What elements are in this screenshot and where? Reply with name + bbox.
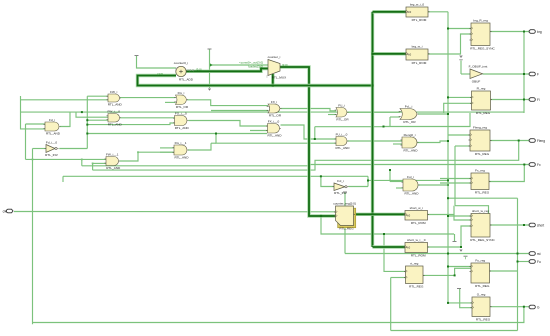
net terminator arrow arr1 [208, 89, 211, 91]
wire net_L167v [81, 159, 83, 165]
wire net_inv_out [59, 148, 87, 150]
wire net_brg_fb [523, 32, 525, 114]
wire net_obuf_feed [460, 61, 462, 75]
wire net_short_q [490, 224, 529, 226]
AND gate FW_i (RTL_AND) [107, 90, 123, 107]
svg-text:FU_i: FU_i [338, 103, 345, 107]
svg-text:RTL_AND: RTL_AND [106, 166, 121, 170]
wire net_fw0_in2b [87, 119, 108, 121]
wire net_rt_out [423, 274, 455, 276]
svg-text:rt_reg: rt_reg [410, 262, 418, 266]
output port F [529, 72, 539, 76]
constant stub G_reg [457, 288, 461, 290]
junction j22 [454, 274, 456, 276]
svg-text:4:0: 4:0 [407, 10, 412, 14]
junction j28 [460, 246, 462, 248]
constant gnd symbol near brg_R_reg [459, 56, 463, 59]
wire net_gnd_top [137, 56, 177, 68]
RTL_REG block Fleng_reg [469, 126, 492, 156]
wire net_inv_in [33, 148, 47, 150]
junction j15 [383, 233, 385, 235]
junction j1 [371, 84, 373, 86]
junction j16 [523, 31, 525, 33]
svg-text:Fl_reg: Fl_reg [477, 87, 486, 91]
wire net_L176v [62, 176, 64, 182]
svg-text:RTL_ROM: RTL_ROM [411, 221, 426, 225]
wire net_fxreg_d1 [440, 178, 471, 180]
svg-text:4:0: 4:0 [406, 246, 411, 250]
wire net_obuf_out [483, 73, 530, 75]
svg-text:RTL_REG: RTL_REG [409, 285, 424, 289]
svg-text:RTL_REG_SYNC: RTL_REG_SYNC [470, 47, 495, 51]
AND gate FG_i__1 (RTL_AND) [173, 141, 190, 160]
svg-text:Fu_reg: Fu_reg [475, 259, 485, 263]
adder counter0_i (RTL_ADD) [174, 61, 195, 81]
RTL_REG block Fx_reg [470, 169, 491, 195]
constant stub short_w_reg R [453, 241, 457, 243]
junction j4 [272, 84, 274, 86]
junction j18 [523, 99, 525, 101]
svg-text:brg: brg [537, 30, 542, 34]
svg-text:RTL_AND: RTL_AND [108, 103, 123, 107]
AND gate FX_i__0 (RTL_AND) [266, 119, 282, 137]
wire-start arrow const0 [210, 63, 213, 66]
junction j26b [447, 113, 449, 115]
svg-text:4:0: 4:0 [406, 213, 411, 217]
wire net_fg1_in2 [160, 151, 174, 153]
wire net_fg_in2 [165, 101, 176, 103]
wire net_L176 [63, 175, 368, 177]
bus bus_muxout [280, 67, 336, 216]
wire net_g_c [448, 302, 472, 304]
svg-text:FvL_i: FvL_i [405, 104, 413, 108]
bus bus_rom0 [373, 10, 407, 13]
junction jfvl [320, 175, 322, 177]
svg-text:FG_i__1: FG_i__1 [175, 141, 187, 145]
wire net_ful_in1v [389, 170, 391, 182]
wire net_fleng_dv [454, 146, 456, 206]
wire net_fl_q [491, 99, 530, 101]
wire net_fw0_in1 [76, 112, 108, 117]
wire net_fu_port [518, 261, 530, 263]
junction j20 [517, 261, 519, 263]
wire net_y180v [367, 176, 369, 186]
wire net_fvl_in [321, 176, 334, 186]
svg-text:RTL_AND: RTL_AND [175, 126, 190, 130]
wire net_fx0_in2 [250, 130, 268, 132]
junction j17 [523, 73, 525, 75]
wire net_ful_out [419, 184, 449, 186]
wire net_fw1_in2v [92, 163, 94, 170]
wire net_fd_in1 [26, 123, 46, 125]
svg-text:G_reg: G_reg [477, 293, 486, 297]
svg-text:RTL_ROM: RTL_ROM [412, 61, 427, 65]
wire net_ful_in1 [390, 181, 403, 183]
wire net_fg0_in2_long [87, 123, 174, 125]
wire net_fleng_d [455, 145, 470, 147]
junction j7b [86, 124, 88, 126]
output port Fl [529, 98, 540, 102]
wire net_fw_in_bot [21, 99, 109, 101]
input port clk [3, 209, 13, 213]
bus bus_rom1 [373, 52, 407, 55]
svg-text:FW_i__0: FW_i__0 [108, 109, 121, 113]
junction j27 [447, 140, 449, 142]
svg-text:FX_i__0: FX_i__0 [268, 119, 280, 123]
svg-text:RTL_ROM: RTL_ROM [412, 18, 427, 22]
wire net_fw0_out [120, 117, 175, 119]
svg-text:RTL_OR: RTL_OR [403, 120, 416, 124]
wire net_g_d [460, 289, 472, 308]
junction jv1 [447, 28, 449, 30]
junction j26 [447, 96, 449, 98]
junction j19 [523, 224, 525, 226]
svg-text:Fvl_i: Fvl_i [337, 179, 344, 183]
svg-text:F_OBUF_inst: F_OBUF_inst [469, 64, 488, 68]
RTL_REG block Fl_reg [470, 87, 492, 115]
svg-text:RTL_REG: RTL_REG [476, 318, 491, 322]
AND gate FW_i__1 (RTL_AND) [105, 152, 122, 170]
junction j7c [86, 133, 88, 135]
svg-text:short_w_i: short_w_i [410, 206, 424, 210]
RTL_REG_SYNC block brg_R_reg [470, 19, 496, 51]
RTL_ROM block short_w_i [404, 206, 430, 225]
svg-text:short_w_i__0: short_w_i__0 [407, 238, 426, 242]
mux counter_i (RTL_MUX) [266, 55, 286, 80]
svg-text:RTL_REG_SYNC: RTL_REG_SYNC [470, 238, 495, 242]
wire net_shortrom_out [428, 215, 472, 221]
output port short [529, 223, 544, 227]
svg-text:Fx: Fx [537, 163, 541, 167]
wire net_bottom_long [33, 307, 524, 323]
wire net_fleng_c [448, 134, 470, 136]
output port rst [529, 252, 540, 256]
junction j13 [447, 179, 449, 181]
junction j5 [320, 215, 322, 217]
svg-text:RTL_REG: RTL_REG [475, 284, 490, 288]
wire net_g_q [491, 306, 530, 308]
svg-text:S: S [266, 75, 268, 79]
bus bus_muxsel [271, 74, 274, 86]
junction jfleng [518, 140, 520, 142]
svg-text:FG_i__0: FG_i__0 [175, 111, 187, 115]
svg-text:RTL_AND: RTL_AND [174, 156, 189, 160]
wire net_v448 [447, 12, 449, 303]
RTL_REG block counter_reg[3:0] [333, 202, 356, 231]
AND gate FW_i__0 (RTL_AND) [107, 109, 123, 126]
wire net_fb_top [21, 111, 525, 113]
wire net_fg1_in [160, 147, 174, 149]
bus bus_fbB [138, 76, 373, 86]
wire net_y234 [321, 216, 454, 234]
wire net_fleng0_in2 [393, 143, 402, 145]
junction j21 [523, 306, 525, 308]
svg-text:Fleng0_i: Fleng0_i [404, 133, 416, 137]
svg-text:Fu: Fu [537, 260, 541, 264]
wire net_fu_out [348, 111, 401, 113]
wire net_fw1_out [120, 152, 175, 161]
svg-text:Fleng: Fleng [537, 139, 545, 143]
svg-text:brg_w_i_0: brg_w_i_0 [410, 3, 425, 7]
svg-text:[3:0]: [3:0] [282, 63, 288, 67]
svg-text:Fleng_reg: Fleng_reg [473, 126, 487, 130]
wire net_brg_c [448, 28, 471, 30]
constant stub Fu_reg CE [464, 256, 468, 259]
wire net_fw_out [120, 97, 176, 99]
wire net_fg_out [187, 100, 268, 106]
wire net_fl_c [448, 96, 472, 98]
inverter Fd_i__0 (RTL_INV) [45, 140, 59, 157]
svg-text:RTL_AND: RTL_AND [335, 146, 350, 150]
OR gate FU_i (RTL_OR) [335, 103, 350, 121]
svg-text:RTL_AND: RTL_AND [108, 123, 123, 127]
svg-text:loadeo[3:0]: loadeo[3:0] [248, 64, 263, 68]
wire net_y133 [87, 133, 267, 135]
junction j14 [447, 253, 449, 255]
junction j11 [314, 138, 316, 140]
wire net_clk [14, 211, 336, 213]
wire net_fg1_out [188, 143, 211, 150]
wire net_fu_q [490, 270, 518, 272]
wire net_fb_left_v [21, 96, 46, 129]
svg-text:RTL_INV: RTL_INV [45, 153, 59, 157]
svg-text:FU_i__0: FU_i__0 [336, 132, 348, 136]
wire net_fw_in_top [87, 95, 108, 97]
AND gate FG_i__0 (RTL_AND) [173, 111, 190, 130]
svg-text:brg_w_i: brg_w_i [412, 45, 423, 49]
junction j6 [81, 111, 83, 113]
wire net_rt_c [384, 234, 406, 271]
svg-text:RTL_REG: RTL_REG [339, 227, 354, 231]
bus bus_counterq_v [371, 12, 374, 247]
wire net_y234v [454, 234, 456, 241]
svg-text:Fl: Fl [537, 98, 540, 102]
AND gate Fd_i (RTL_AND) [44, 118, 61, 136]
wire net_fxreg_q [489, 165, 524, 182]
junction j8 [32, 159, 34, 161]
svg-text:Ful_i: Ful_i [407, 175, 414, 179]
svg-text:FX_i: FX_i [271, 100, 278, 104]
junction j24 [447, 266, 449, 268]
wire net_shortrom0_out [428, 226, 472, 247]
RTL_ROM block brg_w_i [405, 45, 430, 65]
wire net_rt_d [391, 277, 406, 279]
RTL_REG_SYNC block short_w_reg [470, 209, 496, 242]
svg-text:counter_reg[3:0]: counter_reg[3:0] [333, 202, 356, 206]
svg-text:OBUF: OBUF [472, 80, 481, 84]
wire net_fu_in2 [328, 114, 336, 116]
AND gate Ful_i (RTL_AND) [402, 175, 420, 196]
wire net_or4_out [418, 113, 448, 115]
OBUF F_OBUF_inst [469, 64, 488, 83]
wire net_y158 [26, 158, 107, 160]
svg-text:Fx_reg: Fx_reg [475, 169, 485, 173]
wire net_fx_in2 [211, 110, 268, 112]
svg-text:4:0: 4:0 [407, 53, 412, 57]
output port Fleng [529, 139, 545, 143]
wire net_fg1_h [211, 142, 216, 144]
output port G [529, 305, 540, 309]
constant stub const0_mux [208, 48, 212, 50]
wire net_fl_d [444, 103, 472, 113]
constant stub gnd1 [135, 55, 139, 57]
wire net_fg1_branch [216, 134, 336, 144]
junction j9b [137, 151, 139, 153]
wire net_y126 [384, 113, 471, 127]
svg-text:short: short [537, 223, 544, 227]
svg-text:RTL_ADD: RTL_ADD [179, 78, 194, 82]
svg-text:[3:0]: [3:0] [196, 68, 202, 72]
svg-text:RTL_AND: RTL_AND [267, 134, 282, 138]
svg-text:RTL_AND: RTL_AND [404, 192, 419, 196]
RTL_REG block rt_reg [404, 262, 425, 289]
junction j2 [371, 53, 373, 55]
svg-text:O[3:0]: O[3:0] [187, 68, 194, 72]
wire net_const_mux_h [210, 64, 269, 66]
wire net_fx0_up [314, 127, 316, 139]
junction j20c [447, 197, 449, 199]
junction jful [447, 184, 449, 186]
wire net_y180 [368, 179, 448, 181]
wire net_brg_q [491, 31, 530, 33]
svg-text:FG_i: FG_i [178, 91, 185, 95]
svg-text:[3:0]: [3:0] [158, 72, 164, 76]
wire net_short_ce [455, 206, 489, 214]
wire net_rt_out2 [455, 268, 471, 275]
output port Fx [529, 163, 541, 167]
svg-text:brg_R_reg: brg_R_reg [473, 19, 488, 23]
wire net_short_c [448, 215, 471, 217]
wire net_inv_in_v [32, 149, 34, 160]
svg-text:RTL_ROM: RTL_ROM [411, 254, 426, 258]
wire net_short_cev [453, 206, 455, 215]
wire net_fvl_out [349, 186, 369, 188]
RTL_ROM block short_w_i__0 [404, 238, 430, 257]
svg-text:RTL_OR: RTL_OR [269, 114, 282, 118]
wire net_fx0_out [281, 125, 337, 139]
wire net_left_long_v [32, 159, 34, 324]
junction j9c [92, 163, 94, 165]
OR gate FvL_i (RTL_OR) [399, 104, 419, 124]
svg-text:FW_i: FW_i [110, 90, 118, 94]
wire net_y198 [448, 197, 518, 199]
junction j10 [215, 133, 217, 135]
junction j7 [86, 119, 88, 121]
wire net_const_mux [209, 50, 211, 89]
junction j12 [367, 180, 369, 182]
junction jfx [523, 164, 525, 166]
junction j20b [517, 253, 519, 255]
svg-text:F: F [537, 72, 539, 76]
wire net_fw1_in2 [93, 162, 106, 164]
svg-text:RTL_OR: RTL_OR [336, 118, 349, 122]
wire net_ful_in2 [396, 187, 403, 189]
net terminator arrow arr2 [459, 250, 462, 252]
output port Fu [529, 260, 541, 264]
svg-text:FW_i__1: FW_i__1 [106, 152, 119, 156]
AND gate FU_i__0 (RTL_AND) [335, 132, 351, 150]
junction j30 [389, 169, 391, 171]
wire net_y126l [315, 126, 384, 128]
constant stub Fvl [343, 191, 347, 193]
svg-text:RTL_REG: RTL_REG [475, 191, 490, 195]
svg-text:counter0_i: counter0_i [174, 61, 189, 65]
svg-text:RTL_REG: RTL_REG [475, 152, 490, 156]
output port brg [529, 30, 542, 34]
junction j9 [81, 159, 83, 161]
wire net_fleng0_in1 [348, 140, 403, 142]
wire net_fd_in1_v [25, 124, 27, 159]
bus bus_q_out [356, 213, 405, 216]
wire net_fg0_out [189, 121, 268, 127]
wire net_brg0_out [428, 11, 448, 13]
OR gate FX_i (RTL_OR) [267, 100, 282, 118]
RTL_REG block Fu_reg [470, 259, 492, 288]
junction j3 [371, 213, 373, 215]
wire net_bot_loop [391, 330, 518, 332]
svg-text:Fd_i__0: Fd_i__0 [46, 140, 57, 144]
svg-text:RTL_AND: RTL_AND [403, 149, 418, 153]
wire net_fx_out [281, 109, 337, 111]
svg-text:RTL_OR: RTL_OR [176, 105, 189, 109]
svg-text:rst: rst [537, 252, 541, 256]
wire net_L167 [82, 165, 529, 166]
wire net_fleng0_out [418, 141, 449, 143]
svg-text:Fd_i: Fd_i [49, 118, 55, 122]
wire net_or4_in2v [389, 117, 391, 127]
junction j29 [447, 302, 449, 304]
OR gate FG_i (RTL_OR) [174, 91, 189, 109]
bus bus_srom0 [373, 245, 406, 248]
wire net_or4_in2 [390, 116, 400, 118]
wire net_y254v [344, 193, 346, 254]
RTL_REG block G_reg [471, 293, 492, 322]
svg-text:RTL_MUX: RTL_MUX [272, 76, 286, 80]
AND gate Fleng0_i (RTL_AND) [401, 133, 419, 153]
wire net_L171 [93, 141, 519, 171]
wire net_obuf_in [461, 73, 470, 75]
svg-text:short_w_reg: short_w_reg [472, 209, 489, 213]
svg-text:clk: clk [3, 209, 7, 213]
svg-text:RTL_AND: RTL_AND [46, 132, 61, 136]
wire net_fd_out [60, 112, 70, 126]
wire net_y254 [345, 253, 529, 255]
svg-text:RTL_REG: RTL_REG [476, 111, 491, 115]
wire net_fu_c [448, 266, 471, 268]
wire net_v517 [517, 198, 519, 330]
wire net_brg1_out [428, 34, 471, 54]
junction j23 [447, 215, 449, 217]
bus bus_addout [186, 69, 268, 72]
wire net_fleng_q [491, 140, 530, 142]
wire net_v87 [86, 96, 88, 148]
wire net_bot_loopv [390, 278, 392, 331]
wire net_fxreg_d2 [440, 182, 471, 184]
inverter Fvl_i (RTL_INV) [333, 179, 349, 195]
junction j25 [383, 126, 385, 128]
RTL_ROM block brg_w_i_0 [405, 3, 430, 22]
svg-text:counter_i: counter_i [268, 55, 281, 59]
